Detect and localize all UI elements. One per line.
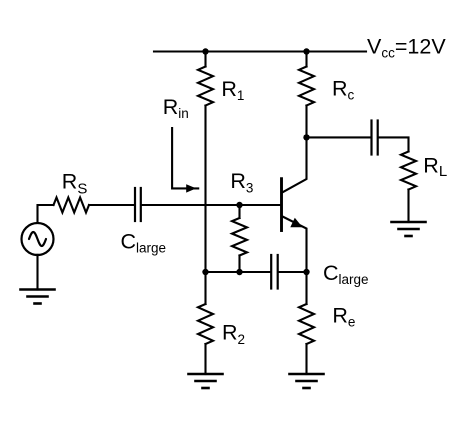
arrowhead Q1 emitter (290, 218, 302, 228)
ground R2 (189, 374, 223, 388)
resistor R3 top lead (238, 205, 240, 218)
resistor R2 (198, 304, 213, 344)
wire bypass cap to emitter node (279, 271, 307, 273)
arrowhead Rin (186, 184, 196, 192)
svg-text:Rin: Rin (163, 95, 189, 121)
wire Re top lead (305, 272, 307, 304)
capacitor output coupling right plate (377, 121, 379, 155)
capacitor Clarge bypass right plate (277, 255, 279, 289)
wire collector node to output cap (307, 136, 371, 138)
svg-text:Vcc=12V: Vcc=12V (367, 35, 446, 61)
transistor Q1 emitter line (283, 217, 307, 273)
wire source top lead (38, 205, 54, 223)
wire R2 top lead (204, 272, 206, 304)
node dot collector (303, 134, 309, 140)
resistor RS (54, 198, 90, 213)
sine symbol (29, 232, 46, 246)
node dot emitter (303, 269, 309, 275)
svg-text:R3: R3 (230, 169, 253, 196)
wire RL bottom lead (407, 190, 409, 223)
wire R3 bottom lead (238, 256, 240, 273)
wire bottom node rail left of bypass cap (206, 271, 271, 273)
svg-text:Re: Re (332, 304, 355, 330)
wire R2 bottom lead (204, 344, 206, 374)
transistor Q1 collector line (283, 137, 307, 192)
wire R1 bottom to base node to R2 top (204, 106, 206, 273)
capacitor Clarge bypass left plate (270, 255, 272, 289)
resistor R1 (198, 67, 213, 106)
svg-text:R1: R1 (221, 77, 244, 103)
svg-text:Clarge: Clarge (323, 261, 369, 287)
capacitor Clarge input right plate (140, 188, 142, 221)
svg-text:R2: R2 (222, 321, 245, 348)
node dot top rail right (303, 48, 309, 54)
svg-text:Rc: Rc (332, 77, 355, 103)
capacitor Clarge input left plate (134, 188, 136, 221)
arrow Rin (172, 128, 198, 188)
wire top supply rail (154, 50, 366, 52)
ground Re (290, 374, 324, 388)
resistor Rc (299, 67, 314, 106)
resistor R3 (232, 218, 247, 256)
wire R1 top lead (204, 52, 206, 67)
ground RL (392, 222, 426, 236)
resistor Re (299, 304, 314, 344)
svg-text:RS: RS (62, 169, 88, 197)
node dot R3 top (236, 202, 242, 208)
source Vs circle (22, 223, 54, 255)
node dot top rail left (202, 48, 208, 54)
wire Rc bottom to collector node (305, 106, 307, 138)
wire Rc top lead (305, 52, 307, 67)
ground source (21, 290, 55, 304)
capacitor output coupling left plate (370, 121, 372, 155)
resistor RL (401, 152, 416, 190)
node dot R3 bottom (236, 269, 242, 275)
node dot bottom rail left (202, 269, 208, 275)
wire Re bottom lead (305, 344, 307, 374)
transistor Q1 base bar (280, 179, 283, 231)
svg-text:RL: RL (423, 154, 447, 181)
wire RS to input cap (89, 204, 134, 206)
wire input cap to base (142, 204, 280, 206)
wire cap to RL top (379, 137, 409, 151)
wire source bottom lead (36, 255, 38, 290)
svg-text:Clarge: Clarge (121, 229, 167, 255)
